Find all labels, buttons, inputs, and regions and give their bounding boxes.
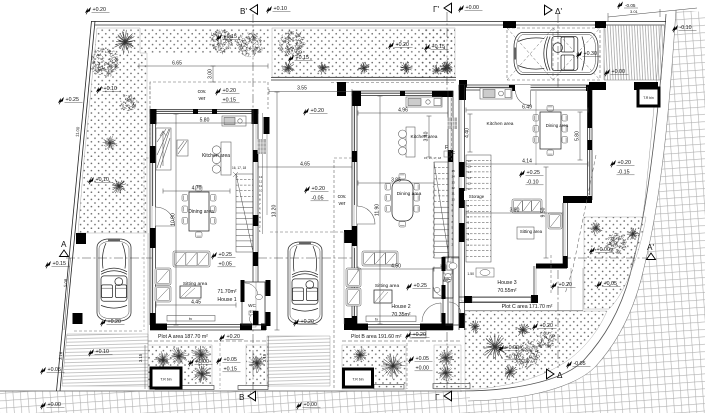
chair	[385, 195, 391, 202]
tree scribble top band B	[237, 32, 263, 57]
house1 stairs	[236, 174, 253, 252]
house3 veranda dashes	[550, 255, 552, 295]
carport dashed outline	[507, 28, 600, 80]
walkway edges right of house3	[570, 268, 572, 310]
marker +0.05/+0.15 walkway A	[216, 357, 222, 364]
svg-text:Dining area: Dining area	[188, 209, 214, 215]
tree plotC 3	[505, 365, 517, 380]
tree garden plotB 4	[438, 365, 454, 382]
house3 coffee table	[517, 227, 534, 239]
dim 3.01 top right	[608, 8, 697, 17]
house1 mirror/window panel	[177, 140, 188, 156]
svg-text:14: 14	[468, 170, 472, 174]
house2 top wall	[352, 91, 453, 96]
house2 WC basin	[434, 288, 440, 293]
tiled duct blocks between houses 2-3	[448, 118, 476, 130]
house3 floor outline	[461, 87, 590, 301]
tree garden plotA 2	[171, 347, 188, 364]
house2 coffee table	[374, 290, 392, 303]
svg-text:13.20: 13.20	[272, 205, 278, 218]
T.R bin box right	[638, 88, 659, 106]
tree garden plotB 1	[354, 348, 367, 362]
chair	[385, 184, 391, 191]
tree right pocket scrib	[606, 233, 626, 254]
house1 wardrobe/shelf left	[156, 128, 171, 170]
svg-text:ver: ver	[339, 201, 346, 207]
svg-text:Plot A area 187.70 m²: Plot A area 187.70 m²	[158, 334, 208, 340]
house3 bottom cabinet	[472, 298, 531, 302]
property boundary line along road	[630, 25, 661, 268]
tree garden plotA 4	[193, 364, 211, 383]
walkway dashed verticals plot B	[406, 343, 408, 389]
house2 kitchen sink counter	[406, 97, 442, 107]
marker +0.00 plot A garden	[188, 359, 194, 366]
svg-text:A': A'	[647, 243, 654, 252]
svg-text:House 1: House 1	[217, 297, 236, 303]
svg-text:9.50: 9.50	[541, 207, 547, 217]
house2 tv cabinet	[366, 316, 416, 322]
small tree row 5	[441, 62, 451, 74]
svg-text:11: 11	[452, 192, 455, 196]
house3 armchair	[548, 213, 562, 229]
house2 dining table oval	[392, 180, 413, 221]
svg-text:+0.15: +0.15	[223, 98, 236, 104]
house3 elevations	[519, 170, 525, 177]
marker +0.05 left bottom	[40, 367, 46, 374]
house3 dining table	[540, 112, 561, 149]
house1 WC toilet	[249, 311, 258, 324]
svg-text:Γ: Γ	[435, 393, 440, 402]
plot C dashed boundary diagonal	[565, 155, 596, 294]
house1 tv cabinet	[167, 316, 215, 322]
bottom garden plot B right piece	[434, 345, 461, 389]
chair top	[399, 174, 406, 180]
house1 cov.ver dashed outline	[150, 82, 268, 109]
walkway tree plot A	[249, 356, 265, 372]
tree small pocket h3	[432, 65, 442, 75]
car 1 driveway A	[97, 239, 131, 321]
marker +0.20 top band	[388, 42, 394, 49]
chair	[385, 206, 391, 213]
svg-text:T.R bin: T.R bin	[352, 378, 363, 382]
chair	[533, 126, 539, 133]
tree plotC 4	[469, 320, 480, 333]
bottom garden plot A	[148, 345, 212, 389]
chair	[182, 195, 188, 202]
svg-text:-0.05: -0.05	[625, 3, 636, 8]
plot C separator	[465, 310, 583, 312]
tree plotC burst big	[484, 334, 507, 360]
svg-text:11: 11	[468, 187, 471, 191]
svg-text:15, 16, 17, 18: 15, 16, 17, 18	[424, 156, 442, 160]
tree burst top-left	[114, 30, 135, 55]
bottom garden plot C big	[465, 311, 607, 389]
svg-text:15: 15	[468, 165, 472, 169]
house3 top wall	[459, 85, 592, 90]
svg-text:Plot C area 171.70 m²: Plot C area 171.70 m²	[502, 304, 553, 310]
house2 dims	[269, 89, 352, 94]
svg-text:Plot B area 191.60 m²: Plot B area 191.60 m²	[351, 334, 402, 340]
chair top	[196, 186, 203, 192]
svg-text:Dining area: Dining area	[397, 191, 422, 197]
garden top band above houses 2-3	[272, 28, 455, 77]
garden pocket right of house3	[584, 217, 646, 309]
house3 WC annex	[443, 257, 459, 325]
marker +0.20 top left	[85, 7, 91, 14]
marker +0.00 right pocket	[589, 247, 595, 254]
house2 floor outline	[354, 93, 451, 328]
svg-text:10: 10	[452, 197, 456, 201]
marker +0.25 left	[58, 97, 64, 104]
svg-text:5.80: 5.80	[200, 118, 210, 124]
tree scribble top band mid	[279, 30, 306, 56]
svg-text:Γ': Γ'	[433, 5, 440, 14]
kerb step rects bottom	[155, 384, 470, 390]
svg-text:4.70: 4.70	[192, 186, 202, 192]
house1 dims	[139, 64, 268, 69]
svg-text:Sitting area: Sitting area	[375, 283, 400, 289]
small tree row above house2: 1	[282, 62, 295, 74]
marker +0.15 left low	[45, 261, 51, 268]
svg-text:10.90: 10.90	[171, 213, 177, 226]
svg-text:11.90: 11.90	[375, 204, 381, 216]
svg-text:tv: tv	[189, 316, 192, 321]
house2 armchairs left	[346, 268, 361, 287]
house3 sofa	[512, 199, 542, 213]
chair bottom	[399, 222, 406, 228]
svg-text:T.R bin: T.R bin	[643, 96, 654, 100]
marker -0.05 bottom right	[566, 361, 572, 368]
svg-text:ver: ver	[199, 96, 206, 102]
car 3 carport (rotated)	[514, 33, 598, 75]
house3 mid-bottom wall	[536, 264, 567, 269]
house2 bottom wall	[352, 325, 453, 331]
small tree row 4	[400, 61, 412, 74]
svg-text:Kitchen area: Kitchen area	[202, 153, 230, 159]
house2 stair insulation zigzag	[433, 186, 435, 258]
house2 WC door arc	[433, 284, 446, 297]
house3 right wall mid	[563, 203, 568, 268]
house3 left wall	[459, 85, 465, 330]
house1 sofa	[173, 251, 210, 267]
tree garden plotB 3	[438, 351, 454, 367]
carport X diagonals	[507, 28, 600, 80]
garden pocket left of house3 top	[421, 28, 455, 79]
svg-text:13: 13	[468, 176, 472, 180]
boundary top double line	[92, 21, 667, 23]
svg-text:F: F	[452, 151, 455, 157]
svg-text:B: B	[239, 393, 245, 402]
marker +0.00 right of carport	[604, 69, 610, 76]
ramp A dashed top edge	[74, 330, 144, 332]
house1 WC basin	[256, 294, 263, 299]
marker +0.10 left bottom	[88, 349, 94, 356]
house1 WC annex walls	[242, 282, 265, 325]
section line Delta vertical	[557, 14, 559, 368]
house3 stairs/storage shaft	[466, 155, 491, 262]
svg-text:5.80: 5.80	[575, 131, 581, 141]
gate piers boundary	[76, 233, 86, 244]
svg-text:70.55m²: 70.55m²	[497, 288, 516, 294]
tree garden plotA 3	[192, 346, 211, 365]
svg-text:3.85: 3.85	[391, 178, 401, 184]
marker Delta' top	[545, 5, 553, 15]
svg-text:6.49: 6.49	[522, 105, 532, 111]
svg-text:Dining area: Dining area	[546, 123, 569, 128]
svg-text:3.40: 3.40	[424, 131, 430, 141]
retaining wall line under top band	[271, 77, 456, 79]
ramp hatch plot B middle	[267, 336, 330, 386]
house1 coffee table	[180, 286, 201, 298]
svg-text:12: 12	[452, 186, 456, 190]
house1 kitchen sink top	[222, 116, 246, 126]
road bottom strip top edge	[0, 390, 462, 392]
walkway dashed verticals plot A	[219, 343, 221, 389]
chair bottom	[547, 150, 554, 156]
house2 kitchen counter + plates	[399, 127, 416, 157]
marker +0.10 left garden 2	[88, 177, 94, 184]
house2 stairs	[434, 162, 449, 258]
bottom garden plot A right piece	[246, 345, 268, 389]
+0.20 under car1	[100, 319, 106, 326]
plot A separator line	[148, 340, 268, 342]
dim 3.15 line	[144, 345, 146, 389]
svg-text:3.01: 3.01	[630, 9, 639, 14]
svg-text:12: 12	[259, 180, 263, 184]
svg-text:+0.20: +0.20	[223, 88, 236, 94]
svg-text:15: 15	[452, 169, 456, 173]
tree plotC 2	[516, 324, 531, 336]
house1 floor outline thin	[152, 111, 256, 327]
svg-text:13: 13	[452, 180, 456, 184]
svg-text:Sitting area: Sitting area	[183, 281, 208, 287]
svg-text:4.14: 4.14	[522, 159, 532, 165]
svg-text:House 2: House 2	[391, 304, 410, 310]
svg-text:3.00: 3.00	[208, 69, 214, 79]
T.R bin plot B	[344, 369, 373, 387]
house3 top door gap + arc	[515, 85, 531, 91]
svg-text:16, 17, 18: 16, 17, 18	[232, 166, 246, 170]
marker +0.15 top band house2	[288, 55, 294, 62]
svg-text:4.65: 4.65	[300, 162, 310, 168]
house3 dims	[466, 108, 588, 113]
svg-text:4.40: 4.40	[465, 128, 471, 138]
svg-text:4.45: 4.45	[191, 300, 201, 306]
svg-text:13: 13	[259, 175, 263, 179]
house1 bottom wall	[150, 325, 266, 331]
svg-text:+0.10: +0.10	[104, 86, 117, 92]
house3 bottom wall	[459, 297, 538, 303]
svg-text:12: 12	[468, 181, 472, 185]
svg-text:+0.00: +0.00	[612, 69, 625, 75]
marker +0.05/+0.00 walkway B	[408, 356, 414, 363]
marker +0.30 carport	[576, 51, 582, 58]
marker +0.15 pocket house3	[424, 44, 430, 51]
svg-text:3.15: 3.15	[138, 353, 143, 362]
section line Gamma vertical	[446, 12, 448, 390]
house2 WC	[433, 268, 453, 298]
boundary left double line	[57, 21, 92, 391]
svg-text:3.55: 3.55	[297, 86, 307, 92]
svg-text:3.16: 3.16	[58, 351, 64, 360]
tree scribble left 1	[91, 48, 119, 77]
house2 entry door bottom right arc	[422, 303, 441, 322]
tree garden plotB big	[381, 354, 406, 379]
marker +0.10 top	[266, 6, 272, 13]
svg-text:A: A	[61, 240, 67, 249]
house1 tiled duct block	[258, 139, 267, 154]
section line B-B vertical	[252, 14, 254, 390]
house3 WC annex door arc	[449, 302, 461, 314]
small tree row 2	[318, 63, 330, 75]
house2 entry steps outside	[410, 331, 426, 339]
svg-text:Δ': Δ'	[555, 7, 562, 16]
house3 WC toilet	[447, 262, 457, 270]
house2 cov ver dashed	[334, 158, 352, 388]
house2 left wall	[352, 91, 357, 330]
house3 basin counter	[476, 268, 494, 277]
svg-text:cov.: cov.	[198, 89, 207, 95]
svg-text:1.25: 1.25	[250, 310, 257, 314]
svg-text:+0.20: +0.20	[311, 108, 324, 114]
marker +0.00 top	[458, 5, 464, 12]
svg-text:4.96: 4.96	[398, 108, 408, 114]
carport back wall pieces	[589, 82, 606, 90]
house1 right wall	[253, 109, 258, 282]
house1 left wall	[150, 109, 156, 325]
dim 3.15 between walkways	[268, 336, 270, 387]
house1 duct shaft east wall	[263, 113, 268, 234]
tree scribble left 3	[103, 136, 118, 150]
house3 partition line kitchen	[535, 91, 537, 165]
chair	[182, 206, 188, 213]
svg-text:Δ: Δ	[557, 371, 563, 380]
tree scribble top band A	[211, 30, 233, 55]
svg-text:Sitting area: Sitting area	[520, 229, 543, 234]
svg-text:6.65: 6.65	[172, 61, 182, 67]
svg-text:WC: WC	[248, 303, 256, 308]
svg-text:16: 16	[468, 159, 472, 163]
svg-text:T.R bin: T.R bin	[160, 378, 171, 382]
tree garden plotA 1	[154, 351, 172, 369]
section line A-A horizontal	[66, 257, 648, 259]
garden left strip with dots	[78, 28, 147, 233]
marker +0.00/+0.10 plot C	[498, 345, 504, 352]
house2 elevations	[303, 108, 309, 115]
carport hatch strip top right	[604, 25, 665, 80]
marker +0.15 top band house1	[216, 34, 222, 41]
house1 elevation labels	[215, 88, 221, 95]
plot B separator line	[342, 340, 461, 342]
svg-text:70.35m²: 70.35m²	[391, 312, 410, 318]
house3 step wall	[563, 196, 592, 203]
tree pocket left house3	[441, 62, 453, 74]
tree right pocket 1	[589, 223, 602, 235]
chair	[533, 137, 539, 144]
chair	[533, 115, 539, 122]
svg-text:3.90: 3.90	[510, 208, 520, 214]
svg-text:11: 11	[259, 184, 262, 188]
chair bottom	[196, 232, 203, 238]
svg-text:4.50: 4.50	[391, 264, 401, 270]
marker +0.00 road mid	[296, 402, 302, 409]
house2 WC toilet	[444, 270, 452, 283]
house2 sofa top	[362, 251, 398, 266]
house1 dining table	[189, 192, 209, 231]
car 2 driveway B	[288, 242, 322, 324]
driveway A edges	[147, 233, 149, 345]
house1 armchair	[155, 268, 171, 285]
house1 top wall	[150, 110, 258, 114]
house2 right wall	[448, 91, 453, 330]
svg-text:1.50: 1.50	[467, 272, 474, 276]
svg-text:71.70m²: 71.70m²	[217, 289, 236, 295]
chair top	[547, 106, 554, 112]
svg-text:10: 10	[259, 189, 263, 193]
garden top band above house1	[140, 28, 269, 53]
house3 kitchen counter	[480, 88, 512, 99]
house2 veranda top dashed	[331, 82, 455, 84]
svg-text:14: 14	[452, 175, 456, 179]
house2 entry door arc	[357, 206, 375, 224]
+0.20 under car2	[293, 319, 299, 326]
bottom garden plot B	[342, 345, 406, 389]
svg-text:F: F	[445, 145, 448, 151]
duct dashed lines	[451, 98, 453, 160]
tree scribble left 2	[119, 95, 137, 111]
driveway B dashes	[270, 231, 344, 233]
tree plotC scrib 2	[536, 331, 555, 349]
house1 WC door arc	[245, 283, 258, 296]
marker +0.05 right	[596, 281, 602, 288]
house3 right wall upper	[588, 87, 593, 200]
marker +0.00 road left	[40, 402, 46, 409]
svg-text:WC: WC	[444, 276, 451, 281]
svg-text:B': B'	[240, 7, 247, 16]
house1 upper floor projection dashed	[144, 83, 150, 330]
road surface grid	[468, 10, 705, 413]
T.R bin plot A	[151, 368, 181, 388]
house1 kitchen counter + plates	[212, 142, 231, 175]
marker +0.10 left garden	[96, 86, 102, 93]
svg-text:Kitchen area: Kitchen area	[487, 121, 514, 127]
tree burst left 4	[112, 179, 126, 193]
svg-text:tx: tx	[375, 317, 378, 322]
small tree row 3	[358, 62, 369, 74]
svg-text:Storage: Storage	[469, 194, 485, 199]
road kerb curves	[460, 14, 666, 391]
tree plotC scrib big	[513, 340, 541, 368]
svg-text:House 3: House 3	[497, 280, 516, 286]
marker -0.10 top right	[672, 25, 678, 32]
marker Delta bottom right	[547, 369, 555, 379]
svg-text:cov.: cov.	[338, 194, 347, 200]
ramp hatch plot A left	[62, 334, 148, 386]
chair	[182, 218, 188, 225]
svg-text:+0.25: +0.25	[66, 97, 79, 103]
svg-text:5.08: 5.08	[63, 278, 69, 287]
house1 entry door arc left	[156, 207, 175, 226]
marker +0.20/-0.15 right	[610, 160, 616, 167]
tree right pocket 2	[627, 228, 639, 240]
